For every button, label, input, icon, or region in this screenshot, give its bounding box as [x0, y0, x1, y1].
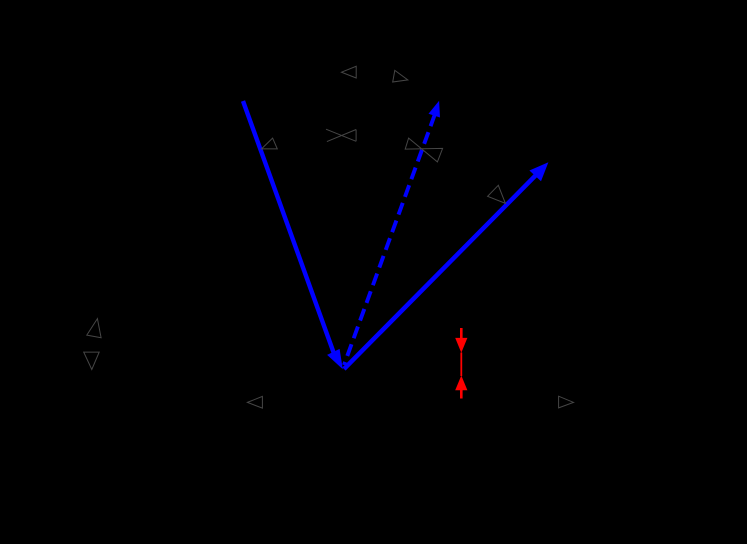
dashed ray (blue dashed arrow): [344, 115, 435, 366]
faint arrowhead outline T9 (points left, bottom span): [247, 396, 262, 408]
dashed ray arrowhead: [429, 101, 441, 118]
reflected ray arrowhead: [529, 162, 548, 181]
faint arrowhead outline T1 (points left, near top of normal): [342, 66, 357, 78]
faint bowtie T3 on normal: open V lines: [326, 129, 356, 141]
red gap marker: top arrow shaft: [460, 328, 463, 339]
red bottom arrow shaft: [460, 390, 463, 399]
red connector line between tips: [460, 353, 462, 377]
faint arrowhead outline T5 on incident ray: [262, 138, 278, 149]
faint arrowhead outline T2 (points right-down, arc end): [393, 70, 408, 82]
red top arrowhead pointing down: [455, 338, 467, 353]
faint arrowhead outline T7 (up arrow, left column): [87, 319, 101, 338]
red bottom arrowhead pointing up: [455, 376, 467, 391]
faint bowtie T3 second line: [327, 130, 356, 142]
incident ray arrowhead at vertex: [327, 349, 343, 369]
incident ray (blue solid line): [243, 101, 335, 355]
faint bowtie T4 crossing quad on dashed ray: [405, 138, 442, 162]
reflected ray (blue solid arrow): [344, 175, 536, 369]
faint arrowhead outline T8 (down arrow, left column): [84, 352, 100, 369]
faint bowtie T3 base: [355, 130, 357, 142]
faint arrowhead outline T6 on reflected ray: [488, 185, 506, 203]
faint arrowhead outline T10 (points right, bottom span): [559, 396, 574, 408]
